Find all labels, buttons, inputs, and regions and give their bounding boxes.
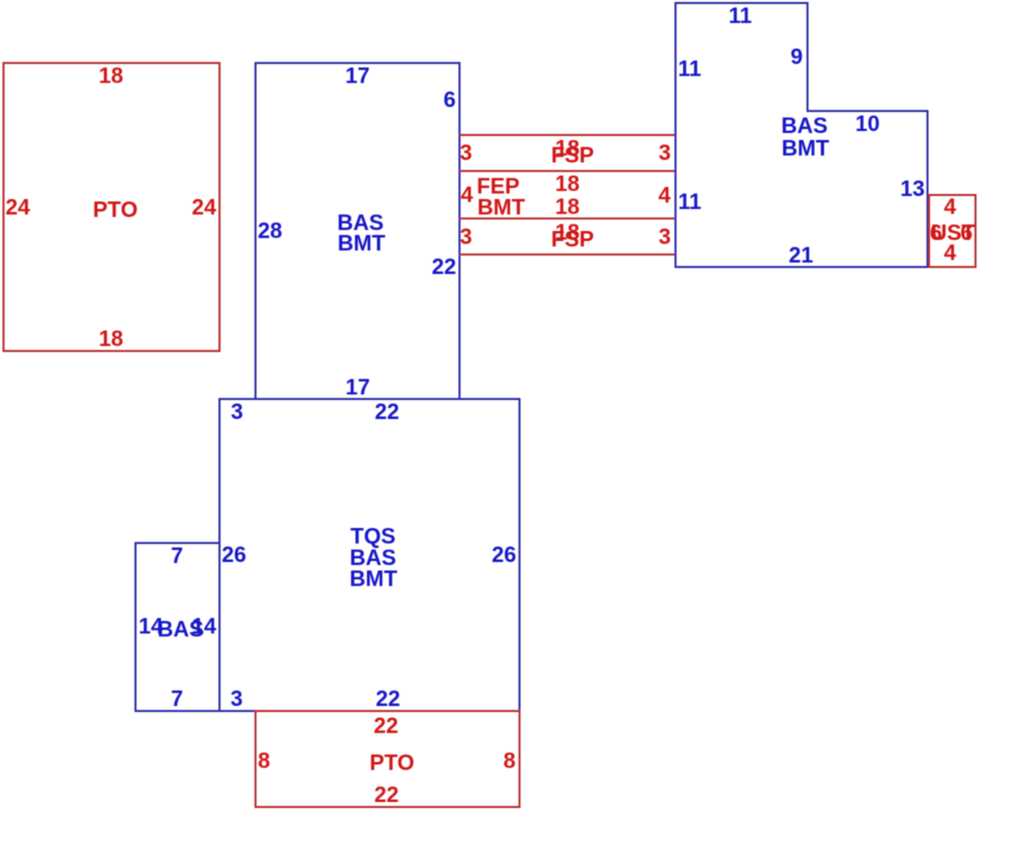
svg-text:22: 22 bbox=[376, 686, 400, 711]
svg-text:24: 24 bbox=[192, 195, 217, 220]
svg-text:BMT: BMT bbox=[338, 231, 386, 256]
svg-text:6: 6 bbox=[960, 220, 972, 245]
svg-text:8: 8 bbox=[503, 748, 515, 773]
wire FSP strip bottom line bbox=[460, 254, 676, 256]
svg-text:18: 18 bbox=[555, 171, 579, 196]
svg-text:BMT: BMT bbox=[477, 195, 525, 220]
svg-text:22: 22 bbox=[432, 254, 456, 279]
svg-text:26: 26 bbox=[222, 542, 246, 567]
svg-text:22: 22 bbox=[374, 782, 398, 807]
area BAS BMT (upper-right L-shape) outline bbox=[676, 3, 928, 267]
svg-text:BAS: BAS bbox=[781, 113, 827, 138]
svg-text:11: 11 bbox=[729, 3, 752, 28]
svg-text:21: 21 bbox=[789, 243, 813, 268]
svg-text:BMT: BMT bbox=[782, 136, 830, 161]
svg-text:7: 7 bbox=[171, 686, 183, 711]
svg-text:13: 13 bbox=[900, 176, 924, 201]
svg-text:6: 6 bbox=[443, 87, 455, 112]
svg-text:18: 18 bbox=[555, 194, 579, 219]
svg-text:FSP: FSP bbox=[551, 227, 594, 252]
svg-text:7: 7 bbox=[171, 543, 183, 568]
svg-text:11: 11 bbox=[678, 189, 701, 214]
svg-text:18: 18 bbox=[99, 63, 123, 88]
svg-text:18: 18 bbox=[99, 326, 123, 351]
svg-text:3: 3 bbox=[460, 224, 472, 249]
svg-text:FSP: FSP bbox=[551, 143, 594, 168]
svg-text:4: 4 bbox=[461, 182, 474, 207]
svg-text:4: 4 bbox=[658, 183, 671, 208]
area BAS (small left) outline bbox=[136, 543, 220, 711]
area PTO (bottom patio) outline bbox=[256, 711, 520, 807]
svg-text:3: 3 bbox=[230, 686, 242, 711]
svg-text:28: 28 bbox=[258, 218, 282, 243]
svg-text:22: 22 bbox=[374, 713, 398, 738]
svg-text:BMT: BMT bbox=[350, 566, 398, 591]
area BAS BMT (upper main) outline bbox=[256, 63, 460, 399]
area PTO (upper-left patio) outline bbox=[4, 63, 220, 351]
area UST outline bbox=[929, 195, 976, 267]
svg-text:26: 26 bbox=[492, 542, 516, 567]
svg-text:22: 22 bbox=[375, 399, 399, 424]
svg-text:24: 24 bbox=[6, 195, 31, 220]
svg-text:PTO: PTO bbox=[370, 750, 415, 775]
svg-text:8: 8 bbox=[258, 748, 270, 773]
wire FSP/FEP divider line bbox=[460, 170, 676, 172]
wire FEP/FSP divider line bbox=[460, 218, 676, 220]
svg-text:14: 14 bbox=[192, 614, 217, 639]
area TQS BAS BMT outline bbox=[220, 399, 520, 711]
svg-text:17: 17 bbox=[345, 63, 369, 88]
svg-text:17: 17 bbox=[345, 375, 369, 400]
svg-text:4: 4 bbox=[944, 194, 957, 219]
svg-text:4: 4 bbox=[944, 240, 957, 265]
svg-text:9: 9 bbox=[790, 44, 802, 69]
svg-text:3: 3 bbox=[231, 399, 243, 424]
svg-text:PTO: PTO bbox=[93, 197, 138, 222]
svg-text:10: 10 bbox=[855, 111, 879, 136]
wire FSP strip top line bbox=[460, 134, 676, 136]
svg-text:11: 11 bbox=[678, 56, 701, 81]
svg-text:3: 3 bbox=[659, 224, 671, 249]
svg-text:3: 3 bbox=[659, 140, 671, 165]
svg-text:3: 3 bbox=[460, 140, 472, 165]
